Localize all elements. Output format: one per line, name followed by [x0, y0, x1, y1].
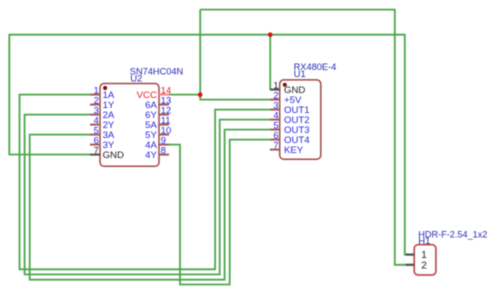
svg-text:7: 7: [94, 146, 99, 156]
wire GND net: U2 pin7 to top bus to H1 pin1: [9, 35, 407, 255]
U2 pin 10 stub: [159, 134, 169, 136]
svg-text:7: 7: [273, 141, 278, 151]
U2 pin 6 stub: [90, 144, 100, 146]
svg-text:3: 3: [273, 101, 278, 111]
wire power bus: top to H1 pin2: [200, 10, 407, 265]
U2 pin 2 stub: [90, 104, 100, 106]
junction at GND bus: [268, 32, 273, 37]
svg-text:5: 5: [273, 121, 278, 131]
svg-text:U2: U2: [130, 74, 142, 85]
U2 pin 12 stub: [159, 114, 169, 116]
junction at VCC node: [198, 92, 203, 97]
wire net OUT1 to 1A: [20, 95, 270, 270]
svg-text:4: 4: [273, 111, 278, 121]
U2 pin 8 stub: [159, 154, 169, 156]
U2 pin 11 stub: [159, 124, 169, 126]
svg-text:1: 1: [94, 86, 99, 96]
svg-text:3: 3: [94, 106, 99, 116]
U1 pin 7 stub: [270, 149, 280, 151]
U1 body: [280, 80, 321, 159]
U2 pin 14 stub VCC: [159, 94, 169, 96]
svg-text:H1: H1: [418, 236, 430, 247]
wire power leg to U1 pin2 +5V: [200, 10, 270, 100]
svg-text:5: 5: [94, 126, 99, 136]
U2 pin 13 stub: [159, 104, 169, 106]
wire net OUT4 to 4A: [169, 140, 270, 285]
svg-text:6: 6: [273, 131, 278, 141]
U1 pin 6 stub: [270, 139, 280, 141]
svg-text:U1: U1: [294, 69, 306, 80]
svg-text:2: 2: [421, 260, 427, 271]
U2 pin 5 stub: [90, 134, 100, 136]
H1 pin 1 stub: [406, 254, 414, 256]
svg-text:10: 10: [161, 126, 171, 136]
U2 pin 1 stub: [90, 94, 100, 96]
svg-text:2: 2: [94, 96, 99, 106]
U2 pin 9 stub: [159, 144, 169, 146]
svg-text:12: 12: [161, 106, 171, 116]
svg-text:11: 11: [161, 116, 171, 126]
U1 pin 3 stub: [270, 109, 280, 111]
U1 pin1 marker dot: [283, 83, 287, 87]
U2 pin 7 stub GND: [90, 154, 100, 156]
U1 pin 5 stub: [270, 129, 280, 131]
svg-text:9: 9: [161, 136, 166, 146]
header H1 HDR-F-2.54_1x2: [406, 229, 488, 275]
U2 pin 3 stub: [90, 114, 100, 116]
svg-text:2: 2: [273, 91, 278, 101]
svg-text:4: 4: [94, 116, 99, 126]
IC U2 SN74HC04N: [90, 67, 183, 167]
H1 body: [414, 245, 436, 275]
svg-text:GND: GND: [103, 150, 124, 161]
IC U1 RX480E-4: [270, 62, 336, 159]
svg-text:1: 1: [273, 81, 278, 91]
svg-text:13: 13: [161, 96, 171, 106]
wire GND drop to U1 pin1: [269, 35, 271, 90]
U1 pin 1 stub GND: [270, 89, 280, 91]
svg-text:14: 14: [161, 86, 171, 96]
svg-text:6: 6: [94, 136, 99, 146]
U1 pin 2 stub: [270, 99, 280, 101]
H1 pin 2 stub: [406, 264, 414, 266]
svg-text:KEY: KEY: [284, 145, 304, 156]
wire net OUT3 to 3A: [30, 130, 270, 280]
U2 body: [100, 84, 159, 167]
svg-text:8: 8: [161, 146, 166, 156]
wire U2 pin14 VCC to junction: [169, 94, 200, 96]
U1 pin 4 stub: [270, 119, 280, 121]
U2 pin 4 stub: [90, 124, 100, 126]
svg-text:4Y: 4Y: [145, 150, 157, 161]
wire net OUT2 to 2A: [25, 115, 270, 275]
U2 pin1 marker dot: [103, 86, 107, 90]
